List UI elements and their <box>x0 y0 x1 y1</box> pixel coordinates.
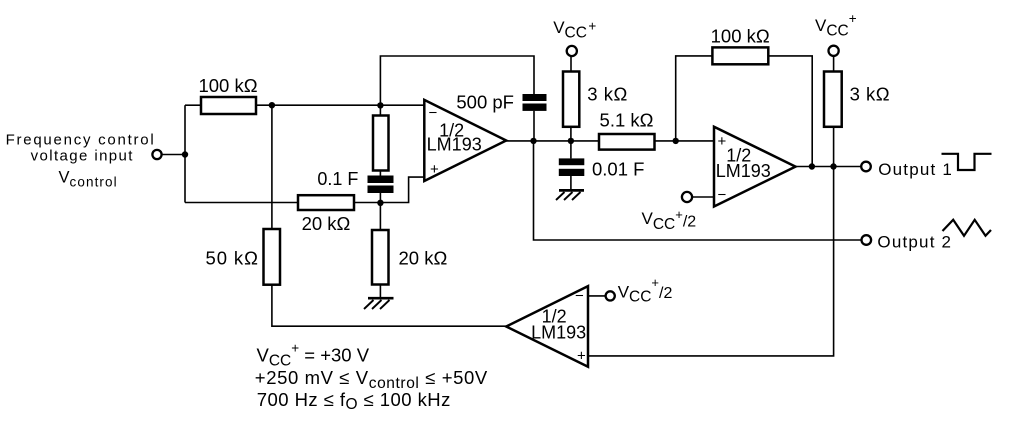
node G <box>673 138 679 144</box>
wire vertical at node A <box>184 105 186 202</box>
capacitor 0.01F plate 2 <box>559 169 585 176</box>
wire R2 to node E <box>354 202 380 204</box>
svg-text:20 kΩ: 20 kΩ <box>302 213 351 234</box>
VCC terminal 1 <box>567 46 577 56</box>
wire node F down to C3 <box>570 141 572 159</box>
wire node E down to R5 <box>379 203 381 230</box>
ground 2 bar <box>559 189 584 192</box>
svg-text:0.1 F: 0.1 F <box>317 169 358 189</box>
op-amp U3 <box>506 286 588 367</box>
wire R1 to U1 minus input <box>256 104 424 106</box>
wire node C down to R4 <box>379 105 381 115</box>
wire node A top to R1 <box>185 104 201 106</box>
wire VCC/2 terminal to U2 minus input <box>692 196 714 198</box>
VCC/2 terminal U2 <box>682 192 692 202</box>
resistor 20k horizontal <box>298 195 354 210</box>
wire C1 bottom plate to node E <box>379 193 381 203</box>
resistor vertical above 0.1F <box>373 116 389 171</box>
input terminal <box>152 150 161 159</box>
wire R6 top to VCC terminal 1 <box>570 57 572 72</box>
output 1 terminal <box>861 162 871 172</box>
wire node F up to R6 <box>570 127 572 141</box>
wire node E to U1 plus input <box>380 177 424 202</box>
node C <box>377 102 383 108</box>
node A <box>182 151 188 157</box>
svg-text:−: − <box>429 105 438 122</box>
svg-text:voltage input: voltage input <box>31 148 134 165</box>
VCC terminal 2 <box>829 46 839 56</box>
triangle wave symbol <box>943 220 992 236</box>
svg-text:Output 1: Output 1 <box>878 160 953 179</box>
output 2 terminal <box>862 235 872 245</box>
svg-text:100 kΩ: 100 kΩ <box>198 75 257 96</box>
svg-text:Output 2: Output 2 <box>877 233 952 252</box>
node E <box>377 200 383 206</box>
svg-text:+: + <box>430 161 439 178</box>
wire node I down to U3 plus rail <box>588 167 834 356</box>
resistor 20k vertical <box>372 230 389 285</box>
svg-text:100 kΩ: 100 kΩ <box>711 25 770 46</box>
svg-text:−: − <box>718 187 727 204</box>
svg-text:0.01 F: 0.01 F <box>592 159 644 180</box>
svg-text:50 kΩ: 50 kΩ <box>206 248 259 269</box>
resistor 3k right <box>824 72 842 127</box>
node B <box>269 102 275 108</box>
resistor 5.1k <box>599 134 655 150</box>
ground 1 bar <box>368 297 394 300</box>
wire U3 minus input to VCC/2 terminal <box>588 295 605 297</box>
svg-text:LM193: LM193 <box>531 322 586 342</box>
resistor 100k feedback <box>712 47 768 64</box>
svg-text:+: + <box>577 347 586 364</box>
node D <box>530 138 536 144</box>
wire R8 to node H <box>768 56 812 167</box>
wire input terminal to node A <box>162 154 185 156</box>
node I <box>830 163 836 169</box>
svg-text:+: + <box>718 133 727 150</box>
capacitor 0.01F plate 1 <box>559 158 585 165</box>
op-amp U2 <box>714 127 796 207</box>
wire node A bottom to R2 <box>185 202 298 204</box>
wire R3 bottom to bottom rail <box>272 285 506 327</box>
capacitor 500pF plate 2 <box>523 104 547 111</box>
svg-text:3 kΩ: 3 kΩ <box>850 84 891 105</box>
wire node B down to R3 <box>271 105 273 228</box>
capacitor 0.1F plate 1 <box>368 176 394 184</box>
svg-text:LM193: LM193 <box>716 161 771 181</box>
node F <box>568 138 574 144</box>
wire R7 to U2 plus input <box>655 140 715 142</box>
node H <box>809 163 815 169</box>
svg-text:LM193: LM193 <box>427 135 482 155</box>
svg-text:Frequency control: Frequency control <box>6 132 156 149</box>
svg-text:500 pF: 500 pF <box>456 92 514 113</box>
svg-text:5.1 kΩ: 5.1 kΩ <box>600 110 654 131</box>
resistor 100k input <box>201 97 256 114</box>
capacitor 500pF plate 1 <box>523 94 547 101</box>
ground 1 hatches <box>364 300 390 309</box>
op-amp U1 <box>424 100 506 181</box>
wire VCC terminal 2 to R9 <box>833 57 835 72</box>
wire node D down to output 2 rail <box>534 141 862 240</box>
svg-text:−: − <box>575 288 584 305</box>
capacitor 0.1F plate 2 <box>368 186 394 194</box>
wire R5 bottom to ground 1 <box>379 285 381 298</box>
VCC/2 terminal U3 <box>606 291 615 300</box>
wire U2 output to output 1 terminal <box>796 166 862 168</box>
wire 500pF bottom to node D <box>533 111 535 141</box>
ground 2 hatches <box>556 192 581 200</box>
resistor 3k left <box>563 72 579 127</box>
wire node C up and over to 500pF <box>380 56 534 105</box>
wire node G up to R8 feedback <box>676 56 713 141</box>
svg-text:20 kΩ: 20 kΩ <box>399 247 448 268</box>
square wave symbol <box>942 154 992 170</box>
wire U1 output to R7 <box>506 140 599 142</box>
wire R4 to C1 top plate <box>379 170 381 175</box>
wire C3 bottom to ground 2 <box>570 176 572 190</box>
wire R9 bottom to node I <box>833 127 835 167</box>
svg-text:3 kΩ: 3 kΩ <box>587 83 628 104</box>
resistor 50k <box>264 229 281 285</box>
